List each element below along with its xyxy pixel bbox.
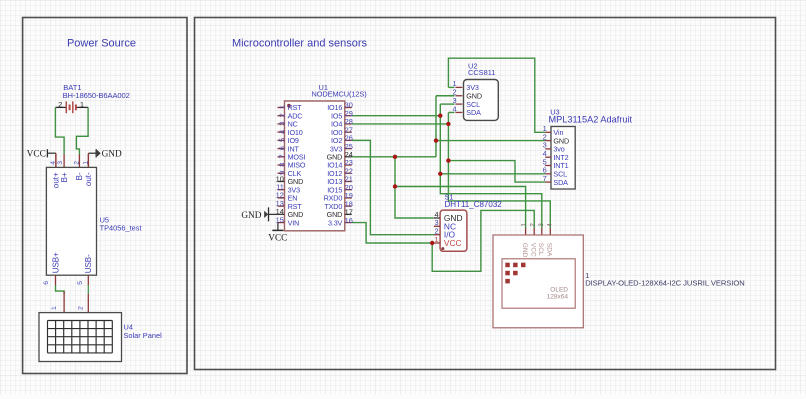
svg-text:OLED: OLED: [550, 287, 568, 294]
svg-text:7: 7: [277, 154, 286, 158]
svg-text:4: 4: [547, 223, 554, 227]
svg-text:Solar Panel: Solar Panel: [124, 331, 163, 340]
svg-text:15: 15: [276, 215, 284, 224]
svg-text:SDA: SDA: [553, 178, 568, 187]
svg-text:2: 2: [277, 113, 286, 117]
svg-text:1: 1: [82, 161, 89, 165]
svg-text:VCC: VCC: [530, 243, 537, 257]
svg-text:3: 3: [538, 223, 545, 227]
svg-text:VCC: VCC: [268, 233, 287, 243]
svg-text:6: 6: [43, 281, 50, 285]
svg-text:VCC: VCC: [444, 238, 462, 248]
svg-text:GND: GND: [241, 211, 261, 221]
svg-text:16: 16: [345, 216, 353, 225]
svg-text:B-: B-: [75, 172, 84, 180]
svg-text:2: 2: [530, 223, 537, 227]
svg-text:5: 5: [77, 281, 84, 285]
svg-text:GND: GND: [102, 150, 122, 160]
svg-text:7: 7: [543, 174, 547, 183]
svg-text:1: 1: [521, 223, 528, 227]
svg-text:3: 3: [277, 121, 286, 125]
svg-text:2: 2: [58, 100, 62, 109]
svg-text:128x64: 128x64: [547, 294, 569, 301]
svg-text:3: 3: [57, 161, 64, 165]
svg-text:CCS811: CCS811: [468, 68, 495, 77]
svg-text:3.3V: 3.3V: [328, 218, 343, 227]
svg-text:1: 1: [434, 235, 438, 244]
svg-text:VCC: VCC: [27, 150, 46, 160]
svg-text:5: 5: [277, 138, 286, 142]
svg-text:BH-18650-B6AA002: BH-18650-B6AA002: [63, 91, 130, 100]
svg-text:6: 6: [277, 146, 286, 150]
svg-text:4: 4: [452, 104, 456, 113]
svg-text:4: 4: [50, 161, 57, 165]
svg-text:MPL3115A2 Adafruit: MPL3115A2 Adafruit: [549, 114, 633, 124]
svg-text:SDA: SDA: [466, 108, 481, 117]
svg-text:SCL: SCL: [537, 243, 544, 256]
svg-text:out-: out-: [84, 172, 93, 186]
svg-text:2: 2: [77, 306, 84, 310]
svg-text:USB-: USB-: [84, 254, 93, 273]
svg-text:Power Source: Power Source: [67, 38, 136, 50]
svg-text:NODEMCU(12S): NODEMCU(12S): [312, 89, 367, 98]
svg-text:TP4056_test: TP4056_test: [100, 224, 142, 233]
svg-text:1: 1: [80, 100, 84, 109]
svg-text:SDA: SDA: [546, 243, 553, 257]
svg-text:1: 1: [51, 306, 58, 310]
svg-text:B+: B+: [60, 172, 69, 182]
svg-text:DISPLAY-OLED-128X64-I2C JUSRIL: DISPLAY-OLED-128X64-I2C JUSRIL VERSION: [585, 278, 744, 287]
svg-text:VIN: VIN: [288, 218, 300, 227]
svg-text:4: 4: [277, 130, 286, 134]
svg-text:Microcontroller and sensors: Microcontroller and sensors: [232, 38, 368, 50]
svg-text:1: 1: [277, 105, 286, 109]
svg-text:GND: GND: [521, 243, 528, 258]
svg-text:USB+: USB+: [51, 252, 60, 273]
svg-text:2: 2: [74, 161, 81, 165]
svg-text:DHT11_C87032: DHT11_C87032: [445, 200, 503, 209]
svg-text:8: 8: [277, 163, 286, 167]
